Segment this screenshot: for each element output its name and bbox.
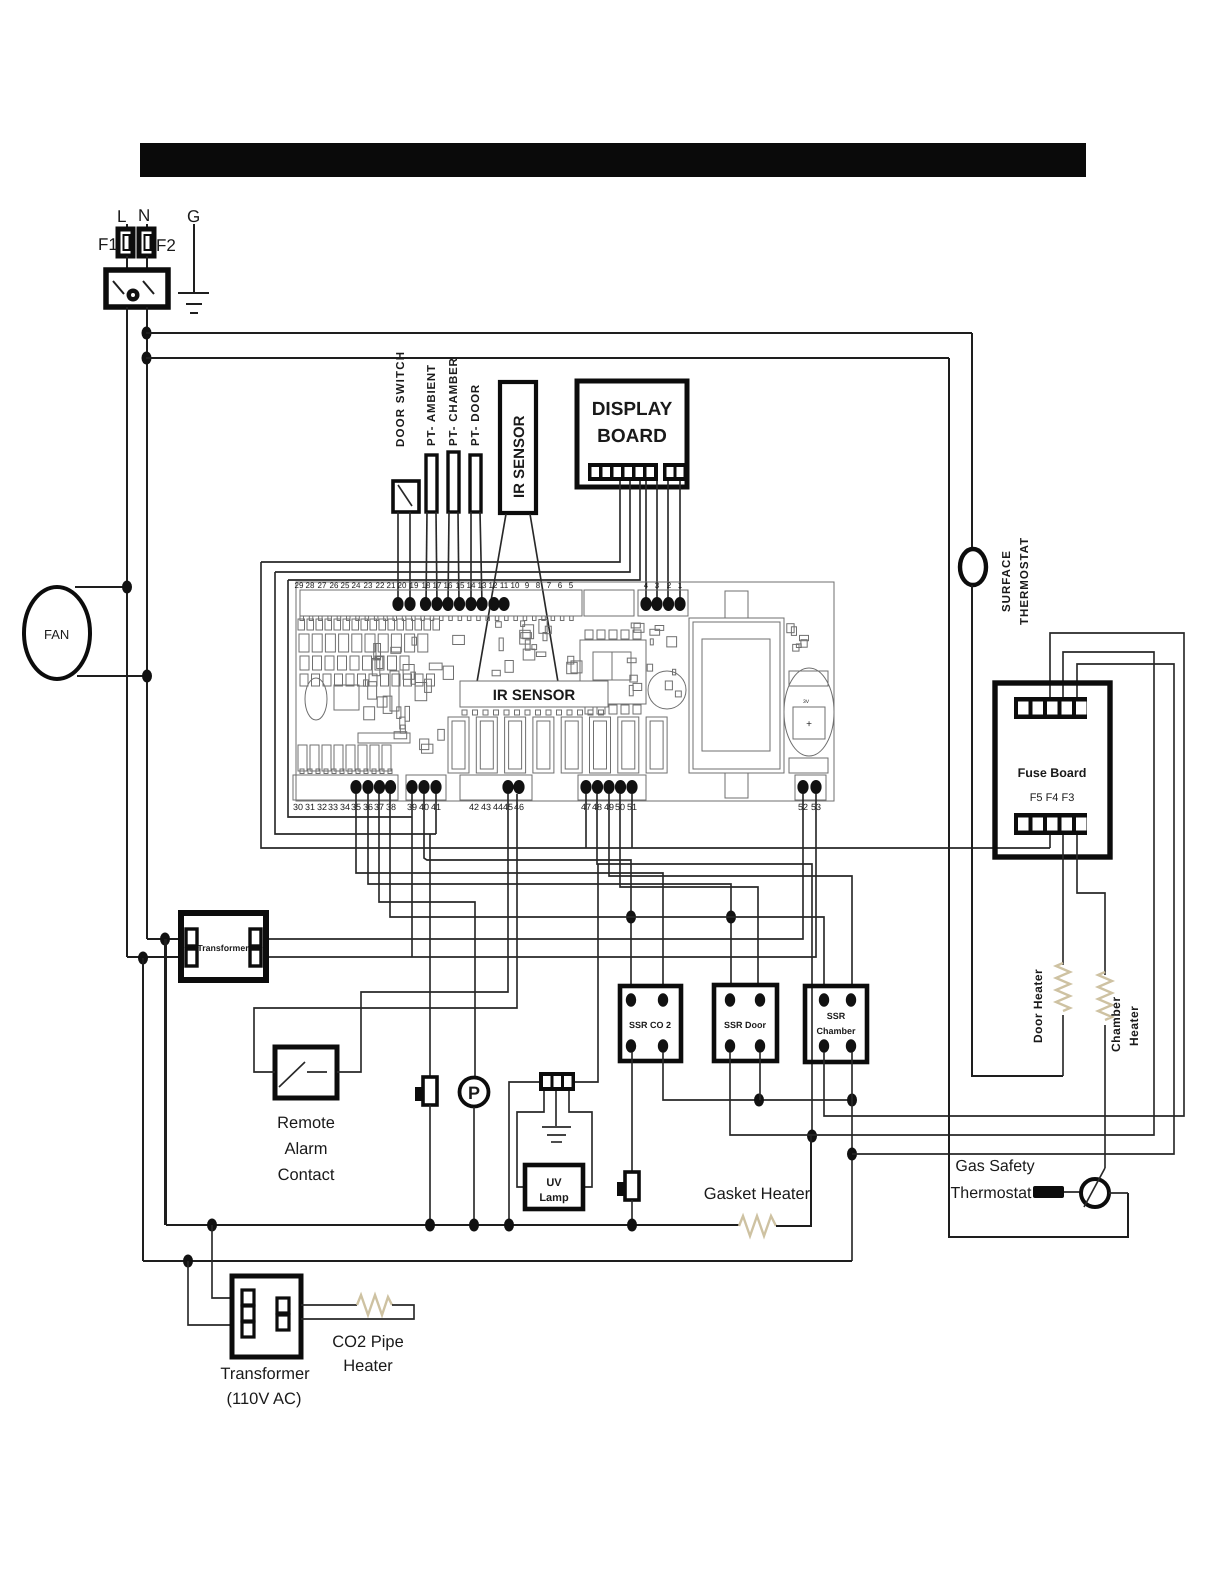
node junction transformer lower branch [138, 952, 148, 965]
wire wrap3 left+bottom [288, 580, 412, 817]
svg-text:12: 12 [489, 581, 498, 590]
svg-text:23: 23 [364, 581, 373, 590]
svg-text:5: 5 [569, 581, 574, 590]
switch box (main power switch) [106, 270, 168, 307]
wire IR sensor diagonal left [477, 514, 506, 682]
wire gas thermostat to right enclosure [1109, 1192, 1128, 1194]
wire SSR Chamber bottom-right drop to neutral bus [851, 1052, 853, 1261]
node junction transformer upper branch [160, 933, 170, 946]
wire L branch to transformer lower pin [127, 956, 181, 958]
svg-text:Contact: Contact [278, 1166, 335, 1184]
gas safety thermostat bulb [1033, 1186, 1064, 1198]
wire FAN bottom [77, 675, 147, 677]
svg-text:Heater: Heater [1127, 1006, 1141, 1046]
svg-text:UV: UV [546, 1177, 562, 1189]
wire P down to bus [473, 1107, 475, 1226]
svg-text:20: 20 [398, 581, 407, 590]
gasket heater coil [739, 1216, 776, 1236]
svg-text:21: 21 [387, 581, 396, 590]
wire display to terminal 2 [667, 481, 669, 604]
wire F1 to switch [126, 256, 128, 270]
pressure switch P [460, 1078, 489, 1107]
node junction bus-P [469, 1219, 479, 1232]
svg-text:42: 42 [469, 802, 479, 812]
svg-text:G: G [187, 207, 200, 226]
wire wrap1 left+bottom (to fuse board feed) [261, 562, 1050, 848]
svg-text:46: 46 [514, 802, 524, 812]
svg-text:P: P [468, 1083, 480, 1103]
SSR Door box [714, 985, 777, 1061]
title bar [140, 143, 1086, 177]
wire display to terminal 3 [656, 481, 658, 604]
wire surface thermostat riser lower to door heater return [972, 585, 1063, 1076]
svg-text:Thermostat: Thermostat [951, 1185, 1032, 1202]
svg-text:18: 18 [422, 581, 431, 590]
svg-text:43: 43 [481, 802, 491, 812]
transformer left terminal block [186, 929, 197, 946]
wire SSR Chamber bottom-left loop (y1116 to fuse loop) [824, 633, 1184, 1116]
wire fuse bottom pin to chamber heater [1077, 835, 1105, 975]
CO2 pipe heater coil [357, 1295, 392, 1315]
wire SSR CO2 bottom-left through thermal fuse TF2 to bus [631, 1052, 633, 1172]
svg-text:31: 31 [305, 802, 315, 812]
svg-text:N: N [138, 206, 150, 225]
wire surface thermostat riser (x972) upper [971, 333, 973, 550]
node junction Door-left common [726, 911, 736, 924]
wire left drop to lower bus (x165) [164, 939, 166, 1225]
svg-text:7: 7 [547, 581, 552, 590]
svg-text:6: 6 [558, 581, 563, 590]
svg-text:F2: F2 [156, 236, 176, 255]
svg-text:25: 25 [341, 581, 350, 590]
sensor PT-DOOR body [470, 455, 481, 512]
chamber heater coil [1098, 972, 1112, 1020]
wire terminal41 riser [435, 794, 437, 834]
svg-text:3: 3 [655, 581, 660, 590]
neutral bus y1261 [143, 1260, 852, 1262]
wire wrap2 left+bottom [275, 572, 436, 834]
node junction bus-transformer110 [207, 1219, 217, 1232]
wire bus2 (second horizontal to right) [146, 357, 949, 359]
svg-text:8: 8 [536, 581, 541, 590]
svg-text:22: 22 [376, 581, 385, 590]
UV lamp box [525, 1165, 583, 1209]
wire PT-AMBIENT to terminals 18,17 [426, 512, 427, 604]
wire display pin A to wrap1 [261, 481, 620, 562]
wire right enclosure (x949) to bottom [949, 358, 1128, 1237]
svg-text:(110V AC): (110V AC) [227, 1390, 302, 1408]
svg-text:34: 34 [340, 802, 350, 812]
svg-text:28: 28 [306, 581, 315, 590]
svg-text:BOARD: BOARD [597, 426, 667, 447]
wire door heater bottom [1062, 1015, 1064, 1076]
svg-text:Chamber: Chamber [816, 1026, 856, 1036]
node junction chamber-return [847, 1148, 857, 1161]
wire display pin B to wrap2 [275, 481, 630, 572]
node junction N-bus2 [142, 352, 152, 365]
node junction bus-TF1 [425, 1219, 435, 1232]
svg-text:11: 11 [500, 581, 509, 590]
wire N vertical (from switch down) [146, 307, 148, 939]
sensor PT-CHAMBER body [448, 452, 459, 512]
wire UV connector left side to bus [509, 1082, 539, 1226]
SSR CO2 box [620, 986, 681, 1061]
svg-text:1: 1 [678, 581, 683, 590]
svg-text:Chamber: Chamber [1109, 996, 1123, 1052]
wire fuse bottom pin to door heater [1062, 835, 1064, 965]
svg-text:3V: 3V [803, 699, 810, 705]
wire N branch to transformer upper pin [147, 938, 181, 940]
svg-text:FAN: FAN [44, 627, 69, 642]
svg-text:38: 38 [386, 802, 396, 812]
node junction neutral-transformer110 [183, 1255, 193, 1268]
wire CO2 pipe heater loop [301, 1304, 357, 1306]
wire UV right bracket [569, 1091, 592, 1187]
svg-text:14: 14 [467, 581, 476, 590]
fuse F2 [139, 229, 154, 256]
svg-text:Alarm: Alarm [284, 1140, 327, 1158]
wire display to terminal 4 [645, 481, 647, 604]
transformer (control) box [181, 913, 266, 980]
svg-text:9: 9 [525, 581, 530, 590]
wire bus1 (top horizontal to right) [146, 332, 972, 334]
IR sensor head box [500, 382, 536, 513]
wire bulb to switch [1064, 1191, 1082, 1193]
wire terminal50 to SSR Door right (y887) [620, 794, 758, 986]
svg-text:PT- AMBIENT: PT- AMBIENT [426, 364, 438, 446]
live bus y1226 (left part) [166, 1224, 739, 1226]
display board box [577, 381, 687, 487]
wire UV connector right side riser [575, 864, 598, 1082]
svg-text:F1: F1 [98, 235, 118, 254]
wire terminal37 to P-switch riser (y902) [379, 794, 475, 1078]
svg-text:PT- CHAMBER: PT- CHAMBER [448, 357, 460, 446]
svg-text:19: 19 [410, 581, 419, 590]
wire fuse feed from wrap1 up to bottom connector [1049, 835, 1051, 848]
wire SSR Door bottom-left loop (y1135 to fuse loop) [730, 652, 1154, 1135]
svg-text:16: 16 [444, 581, 453, 590]
wire terminal49 to SSR Chamber right (y876) [609, 794, 852, 986]
svg-text:15: 15 [456, 581, 465, 590]
wire live bus riser x166 [165, 939, 167, 1225]
display board connector 2-pin [663, 463, 686, 481]
wire RAC left to terminal 45 [254, 794, 517, 1072]
display board connector 6-pin [588, 463, 658, 481]
transformer 110V box [232, 1276, 301, 1357]
fuse board bottom connector [1014, 813, 1087, 835]
wire terminal35 to SSR CO2 right (via y873) [356, 794, 663, 986]
node junction bus-SSRCO2 [627, 1219, 637, 1232]
wire L vertical (from switch down) [126, 307, 128, 957]
surface thermostat [960, 549, 986, 585]
wire RAC right to terminal 44 [337, 794, 508, 1072]
svg-text:Lamp: Lamp [539, 1192, 569, 1204]
wire terminal38 common line to SSR Chamber left (y917) [390, 794, 824, 986]
wire transformer110 feed upper [212, 1225, 234, 1298]
fan motor FAN [24, 587, 90, 679]
svg-text:Fuse Board: Fuse Board [1018, 766, 1087, 780]
svg-text:IR SENSOR: IR SENSOR [511, 415, 528, 498]
wire SSR Door bottom-right drop [759, 1052, 761, 1100]
svg-text:SSR: SSR [827, 1011, 846, 1021]
svg-text:24: 24 [352, 581, 361, 590]
svg-text:DOOR SWITCH: DOOR SWITCH [395, 351, 407, 447]
svg-text:CO2 Pipe: CO2 Pipe [332, 1333, 404, 1351]
svg-text:Remote: Remote [277, 1114, 335, 1132]
UV lamp connector [539, 1072, 575, 1091]
svg-text:33: 33 [328, 802, 338, 812]
svg-text:F5 F4 F3: F5 F4 F3 [1030, 792, 1075, 804]
svg-text:Heater: Heater [343, 1357, 393, 1375]
ground symbol [178, 292, 209, 294]
transformer right terminal block [250, 929, 261, 946]
svg-text:Door Heater: Door Heater [1031, 969, 1045, 1043]
node junction door-out [754, 1094, 764, 1107]
wire UV left bracket [517, 1091, 544, 1187]
wire G lead [193, 224, 195, 293]
wire chamber return loop (y1154 to fuse loop) [852, 664, 1174, 1154]
wire door switch to terminals 21,20 [397, 512, 399, 604]
svg-text:44: 44 [493, 802, 503, 812]
svg-text:10: 10 [511, 581, 520, 590]
node junction fan-bottom [142, 670, 152, 683]
svg-text:13: 13 [478, 581, 487, 590]
node junction gasket riser [807, 1130, 817, 1143]
wire terminal53 to transformer lower (y957) [266, 794, 816, 957]
svg-text:DISPLAY: DISPLAY [592, 399, 673, 420]
svg-text:27: 27 [318, 581, 327, 590]
node junction bus-UV [504, 1219, 514, 1232]
svg-text:26: 26 [330, 581, 339, 590]
svg-text:+: + [806, 719, 812, 730]
svg-text:SSR Door: SSR Door [724, 1020, 767, 1030]
node junction chamber-out [847, 1094, 857, 1107]
svg-text:IR SENSOR: IR SENSOR [493, 687, 576, 704]
svg-text:29: 29 [295, 581, 304, 590]
wire PT-CHAMBER to terminals 16,15 [448, 512, 449, 604]
svg-text:THERMOSTAT: THERMOSTAT [1019, 537, 1031, 625]
wire gasket heater right to riser [776, 1136, 811, 1226]
fuse board top connector [1014, 697, 1087, 719]
wire N lead [146, 224, 148, 229]
svg-text:L: L [117, 207, 126, 226]
PCB main control board [293, 581, 834, 812]
wire display pin C to wrap3 [288, 481, 640, 580]
wire terminal39 riser [411, 794, 413, 957]
svg-text:Transformer: Transformer [220, 1365, 310, 1383]
fuse F1 [118, 229, 133, 256]
gas safety thermostat switch circle [1081, 1179, 1109, 1207]
wire terminal48 riser + UV/gasket line (y864) [597, 794, 812, 1135]
SSR Chamber box [805, 986, 867, 1062]
thermal fuse TF2 [625, 1172, 639, 1200]
door heater coil [1056, 963, 1070, 1011]
thermal fuse TF1 [429, 834, 431, 1077]
wire PT-DOOR to terminals 14,13 [470, 512, 472, 604]
wire terminal52 to transformer upper (y939) [266, 794, 803, 939]
ground symbol UV [542, 1126, 571, 1128]
svg-text:Gas Safety: Gas Safety [955, 1158, 1034, 1175]
svg-text:30: 30 [293, 802, 303, 812]
svg-text:Gasket Heater: Gasket Heater [704, 1185, 811, 1203]
node junction N-bus1 [142, 327, 152, 340]
wire F2 to switch [146, 256, 148, 270]
wire terminal51 riser [631, 794, 633, 848]
wire L lead [126, 224, 128, 229]
wire left drop to lowest bus (x143) [142, 958, 144, 1261]
svg-text:SSR CO 2: SSR CO 2 [629, 1020, 671, 1030]
svg-text:4: 4 [644, 581, 649, 590]
wire terminal40 to SSR CO2 left (via y860) [424, 794, 631, 986]
wire chamber heater bottom to gas thermostat [1104, 1025, 1106, 1168]
svg-text:PT- DOOR: PT- DOOR [470, 384, 482, 446]
wire terminal47 riser to fuse feed line [585, 794, 587, 848]
wire UV ground stem [555, 1091, 557, 1126]
svg-text:Transformer: Transformer [197, 943, 249, 953]
wire SSR CO2 bottom-right to common (y1100) [663, 1052, 852, 1100]
wire IR sensor diagonal right [530, 514, 558, 682]
svg-text:SURFACE: SURFACE [1001, 550, 1013, 612]
wire FAN top [75, 586, 127, 588]
wire transformer110 feed lower [188, 1261, 234, 1325]
svg-text:17: 17 [433, 581, 442, 590]
wire display to terminal 1 [679, 481, 681, 604]
node junction fan-top [122, 581, 132, 594]
fuse board box [995, 683, 1110, 857]
door switch component [393, 481, 419, 512]
remote alarm contact box [275, 1047, 337, 1098]
svg-text:32: 32 [317, 802, 327, 812]
svg-text:2: 2 [667, 581, 672, 590]
wire terminal36 to SSR Door left (via y884) [368, 794, 731, 986]
sensor PT-AMBIENT body [426, 455, 437, 512]
node junction CO2-left common [626, 911, 636, 924]
